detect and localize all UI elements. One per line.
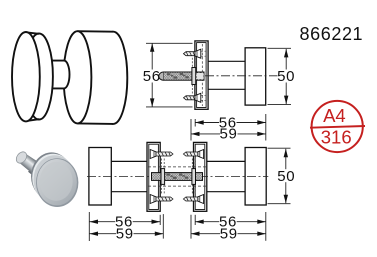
dimension 56 (bottom-right) — [195, 221, 266, 223]
knob head back ellipse — [99, 32, 127, 124]
ext line x=265.8 (mid) — [265, 114, 267, 141]
ext line x=160.2 (bottom-left short) — [159, 215, 161, 225]
head side wall dark edge — [31, 152, 72, 200]
stem cylinder — [18, 153, 41, 174]
right plate inner — [195, 144, 205, 209]
ext line x=191 (mid) — [190, 119, 192, 141]
right stem — [207, 160, 245, 162]
left knob disc — [89, 148, 111, 206]
rose plate outer — [195, 41, 208, 109]
photo of knob (bottom-left) — [14, 150, 78, 207]
rose front ellipse — [12, 32, 40, 121]
dimension 56 (bottom-left) — [90, 221, 161, 223]
svg-text:866221: 866221 — [300, 24, 364, 44]
dimension 56 (mid) — [195, 122, 266, 124]
ext line x=195.2 (bottom-right short) — [194, 215, 196, 225]
knob disc (top drawing) — [245, 48, 266, 105]
3D sketch of knob (top-left) — [12, 31, 127, 124]
stem end cap — [14, 150, 29, 165]
head face rim — [36, 158, 78, 207]
rose plate inner — [197, 43, 207, 108]
svg-text:59: 59 — [219, 126, 237, 143]
svg-text:316: 316 — [321, 126, 352, 147]
dimension 50 (lower) — [285, 149, 287, 203]
left plate inner — [149, 144, 159, 209]
ext lines for dim 50 (top) — [268, 47, 292, 49]
rose side walls — [26, 32, 39, 34]
svg-text:50: 50 — [277, 168, 295, 185]
stem collar — [28, 160, 41, 176]
wood screw bottom-right (lower, points left) — [183, 195, 203, 204]
head face — [37, 159, 77, 205]
ext line x=191 (bottom-right) — [190, 215, 192, 239]
svg-text:A4: A4 — [323, 105, 346, 126]
centreline (top drawing) — [205, 75, 285, 77]
wood screw top (top drawing) — [184, 49, 206, 58]
dimension 59 (mid) — [191, 133, 266, 135]
ext line x=89.3 (bottom-left) — [88, 212, 90, 241]
knob head body mask — [78, 32, 114, 123]
label 56 (left) — [143, 70, 161, 83]
hidden spindle lines between plates — [148, 166, 206, 168]
hidden line vertical in plate — [201, 44, 203, 106]
knob head side walls — [78, 30, 114, 33]
knob head front ellipse — [64, 31, 92, 123]
dimension 59 (bottom-left) — [90, 233, 164, 235]
centreline (lower) — [87, 176, 268, 178]
right plate outer — [194, 142, 207, 211]
ext line bottom (dim 56 vertical) — [146, 106, 193, 108]
svg-text:59: 59 — [220, 226, 238, 243]
wood screw top-left (lower, points right) — [150, 150, 173, 159]
stamp A4/316 — [310, 101, 365, 152]
dimension 50 (top) — [285, 49, 287, 104]
ext line top (dim 56 vertical) — [146, 42, 193, 44]
left stem — [111, 160, 147, 162]
svg-text:56: 56 — [143, 68, 161, 85]
left plate outer — [147, 142, 160, 211]
wood screw bottom-left (lower, points right) — [150, 195, 173, 204]
stem (top drawing) — [208, 60, 245, 62]
dimension 56 vertical line — [151, 43, 153, 107]
wood screw bottom (top drawing) — [184, 93, 206, 102]
ext line x=163.3 (bottom-left tall) — [162, 214, 164, 239]
wood screw top-right (lower, points left) — [183, 150, 203, 159]
svg-text:50: 50 — [277, 68, 295, 85]
machine screw rod (lower) — [152, 159, 203, 195]
rose back ellipse — [25, 34, 53, 120]
right knob disc — [245, 148, 266, 206]
svg-text:59: 59 — [116, 226, 134, 243]
neck cylinder — [50, 61, 70, 89]
face centre flat tone — [40, 162, 73, 201]
machine screw rod (top) — [159, 58, 204, 94]
dimension 59 (bottom-right) — [191, 233, 266, 235]
ext line x=195.2 (mid) — [194, 119, 196, 127]
ext lines for dim 50 (lower) — [268, 147, 291, 149]
head side wall bright band — [32, 154, 74, 202]
ext line x=265.8 (bottom-right) — [265, 212, 267, 241]
